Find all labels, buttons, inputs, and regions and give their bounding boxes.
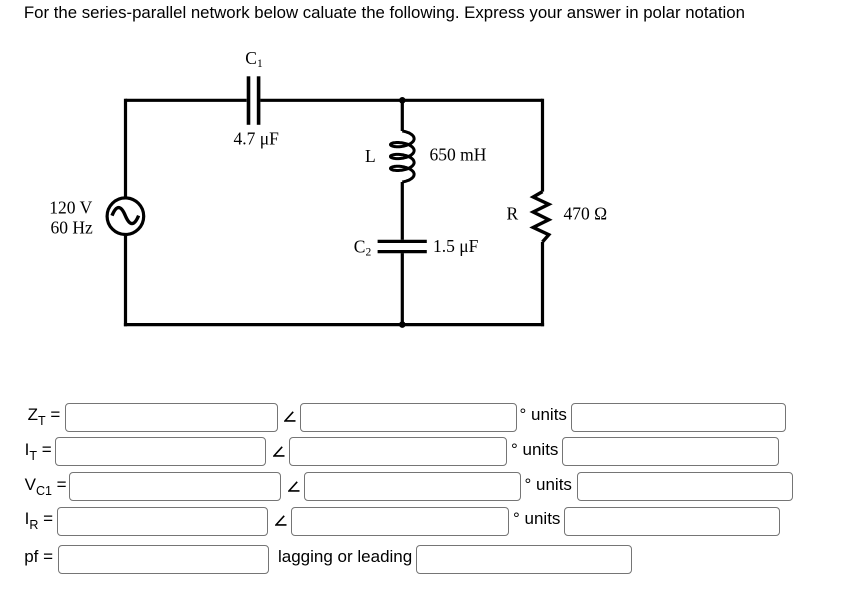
wire middle upper <box>401 100 404 131</box>
wire left vertical upper <box>124 99 127 198</box>
capacitor C2 plates <box>378 241 427 251</box>
resistor R zigzag <box>533 192 549 242</box>
svg-text:650 mH: 650 mH <box>430 145 487 165</box>
row 4: IR <box>25 505 53 533</box>
svg-text:470 Ω: 470 Ω <box>564 204 608 224</box>
junction node top <box>399 97 406 104</box>
wire left vertical lower <box>124 235 127 327</box>
wire top-left to C1 left plate <box>126 99 247 102</box>
svg-text:1.5 μF: 1.5 μF <box>433 236 479 256</box>
inductor L coil <box>391 131 415 182</box>
svg-text:4.7 μF: 4.7 μF <box>234 129 280 149</box>
title <box>24 3 745 22</box>
svg-text:60 Hz: 60 Hz <box>51 218 94 238</box>
circuit schematic <box>0 0 853 400</box>
row 1: ZT <box>28 401 61 429</box>
svg-text:C1: C1 <box>245 48 263 70</box>
wire bottom <box>124 323 544 326</box>
labels serif <box>49 48 607 259</box>
wire right vertical upper <box>541 99 544 192</box>
AC source V1 circle <box>107 198 144 235</box>
wire C1 right plate to top-right corner <box>260 99 542 102</box>
row 2: IT <box>25 436 52 464</box>
svg-text:C2: C2 <box>354 236 372 258</box>
svg-text:R: R <box>507 204 519 224</box>
svg-text:L: L <box>365 146 376 166</box>
junction node bottom <box>399 321 406 328</box>
row 5: pf <box>24 543 53 571</box>
AC source sine wave <box>112 208 139 224</box>
wire right vertical lower <box>541 242 544 326</box>
wire middle between coil and C2 <box>401 182 404 240</box>
svg-text:120 V: 120 V <box>49 197 92 217</box>
wire middle lower <box>401 253 404 325</box>
row 3: VC1 <box>25 471 67 499</box>
capacitor C1 plates <box>249 76 259 125</box>
